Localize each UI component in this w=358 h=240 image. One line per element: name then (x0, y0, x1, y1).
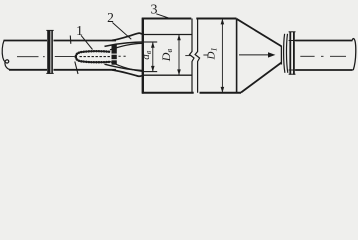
chamber tube bottom line Dv (142, 74, 192, 76)
svg-text:2: 2 (107, 10, 114, 25)
body bottom line right part (200, 92, 242, 94)
flow arrow shaft (239, 54, 269, 56)
inner bell bottom outer curve (105, 64, 145, 70)
flow arrow head (268, 52, 275, 57)
centerline dash before break (185, 55, 191, 57)
centerline dash after flange (55, 56, 75, 58)
break line 1 (190, 19, 195, 93)
pipe bottom wall flange to bell (54, 69, 117, 71)
D1 dimension line (221, 19, 223, 92)
bottom strut tick (75, 62, 78, 75)
cone bottom edge (241, 63, 281, 93)
cone exit face (280, 46, 282, 65)
dv arrowhead down (151, 66, 155, 72)
leader line 1 (81, 35, 93, 49)
throat tube bottom line dv (142, 71, 157, 73)
svg-text:1: 1 (76, 24, 83, 39)
body top line left part (142, 18, 191, 20)
Dv arrowhead down (177, 69, 181, 75)
top strut tick (69, 36, 72, 44)
left flange bottom cap (46, 72, 53, 74)
nozzle bullet dotted bottom edge (76, 57, 110, 62)
right flange bar 1 (289, 32, 291, 75)
nozzle centerline dashes (80, 56, 113, 58)
right pipe top wall (295, 40, 352, 42)
nozzle base white slit 1 (111, 54, 118, 55)
chamber tube top line Dv (142, 34, 192, 36)
right pipe end arc (352, 39, 355, 71)
right flange tick bottom pipe wall (289, 69, 296, 71)
leader line 3 (156, 14, 171, 19)
left flange bar 1 (47, 30, 50, 74)
body left wall (142, 18, 144, 94)
right flange top cap (289, 31, 296, 33)
dv arrowhead up (151, 42, 155, 48)
pipe top wall flange to bell (54, 40, 117, 42)
gasket curve 2 (286, 34, 287, 73)
centerline dash right body (203, 54, 208, 56)
body right wall (236, 19, 238, 93)
left pipe bottom wall (9, 69, 47, 71)
body bottom line left part (142, 92, 194, 94)
svg-text:3: 3 (151, 3, 158, 18)
nozzle bullet bottom bead texture (76, 57, 110, 62)
right flange tick top pipe wall (289, 40, 296, 42)
right flange bottom cap (289, 73, 296, 75)
right pipe bottom wall (295, 69, 353, 71)
body top line right part (196, 18, 236, 20)
inner bell bottom inner curve (110, 62, 144, 72)
Dv arrowhead up (177, 35, 181, 41)
left pipe top wall (4, 40, 48, 42)
centerline dot left pipe (43, 56, 45, 58)
left pipe broken-end curl (2, 41, 10, 70)
inner bell top outer curve (105, 42, 145, 46)
outer bell top flare (112, 33, 142, 40)
centerline dots after nozzle (119, 55, 126, 57)
left flange top cap (46, 29, 53, 31)
right pipe centerline dot (321, 55, 346, 57)
D1 arrowhead up (221, 19, 225, 25)
break line 2 (195, 19, 200, 93)
gasket curve 1 (284, 34, 285, 73)
left flange bar 2 (51, 31, 53, 74)
right flange bar 2 (293, 32, 295, 75)
nozzle base dark band (112, 44, 117, 64)
leader line 2 (112, 23, 131, 40)
nozzle base white slit 2 (111, 59, 118, 60)
Dv dimension line (178, 35, 180, 75)
centerline dash left pipe (17, 56, 39, 58)
cone top edge (237, 19, 282, 47)
throat tube top line dv (142, 41, 157, 43)
right pipe centerline dash (300, 55, 314, 57)
inner bell top inner curve (110, 43, 144, 49)
D1 arrowhead down (221, 87, 225, 93)
nozzle bullet top bead texture (76, 51, 110, 56)
nozzle bullet dotted top edge (76, 51, 110, 56)
outer bell bottom flare (112, 70, 142, 76)
dv dimension line (152, 43, 154, 72)
